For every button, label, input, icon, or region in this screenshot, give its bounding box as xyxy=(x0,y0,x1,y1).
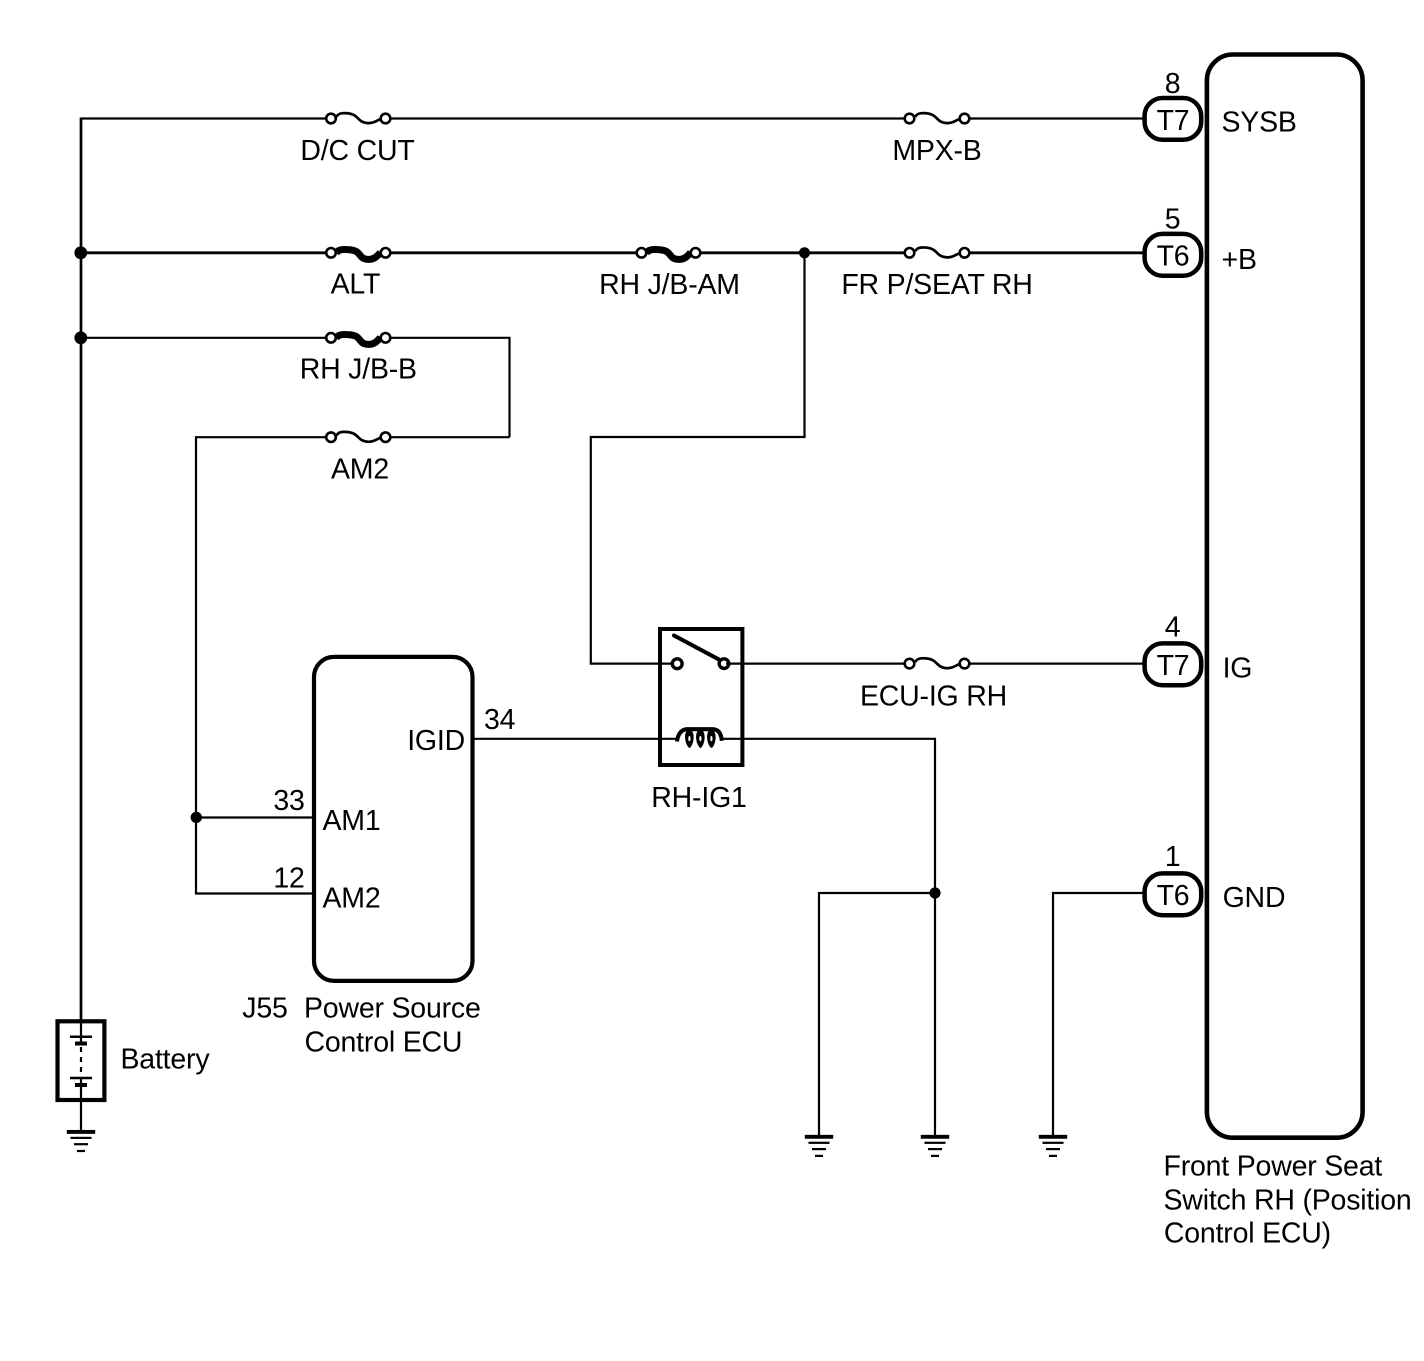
connector terminal T6 pin 5 +B xyxy=(1145,204,1257,277)
junction node on left bus at +B wire xyxy=(74,246,87,259)
relay coil xyxy=(677,729,722,741)
wire: AM2 run down to ECU pins xyxy=(196,437,510,817)
fuse ECU-IG RH xyxy=(860,655,1007,712)
svg-text:T6: T6 xyxy=(1157,880,1190,912)
wire: battery to ground xyxy=(80,1100,82,1131)
fuse D/C CUT xyxy=(300,110,414,167)
wire: relay coil to ground xyxy=(722,739,936,1136)
svg-text:J55: J55 xyxy=(242,993,287,1025)
svg-text:FR P/SEAT RH: FR P/SEAT RH xyxy=(841,269,1032,301)
connector terminal T7 pin 4 IG xyxy=(1145,611,1253,685)
svg-text:MPX-B: MPX-B xyxy=(892,135,981,167)
svg-text:T7: T7 xyxy=(1157,105,1190,137)
wire: AM1 pin wire xyxy=(196,816,316,818)
fusible link RH J/B-AM xyxy=(599,244,740,301)
svg-text:5: 5 xyxy=(1165,204,1181,236)
svg-text:Battery: Battery xyxy=(121,1044,211,1076)
svg-text:+B: +B xyxy=(1222,244,1257,276)
wire: +B run from left bus to T6 xyxy=(81,251,1146,254)
svg-text:ALT: ALT xyxy=(331,269,381,301)
J55 Power Source Control ECU box xyxy=(314,657,473,981)
junction node at AM1 pin wire xyxy=(191,812,202,823)
svg-text:AM1: AM1 xyxy=(323,805,381,837)
svg-text:RH J/B-AM: RH J/B-AM xyxy=(599,269,740,301)
ground (battery) xyxy=(67,1130,95,1152)
battery xyxy=(58,1021,211,1100)
ground (left branch) xyxy=(805,1135,833,1157)
svg-text:12: 12 xyxy=(273,863,304,895)
wire: left vertical bus from SYSB wire down to battery xyxy=(80,118,83,1023)
svg-text:T6: T6 xyxy=(1157,241,1190,273)
wire: ground branch xyxy=(819,893,935,1136)
svg-text:IG: IG xyxy=(1223,653,1253,685)
wire: IGID pin wire to relay coil xyxy=(474,738,678,740)
svg-text:SYSB: SYSB xyxy=(1222,107,1297,139)
svg-text:ECU-IG RH: ECU-IG RH xyxy=(860,680,1007,712)
svg-text:RH J/B-B: RH J/B-B xyxy=(300,354,417,386)
junction node on coil ground wire xyxy=(929,887,940,898)
relay switch contact right xyxy=(719,659,729,669)
fuse MPX-B xyxy=(892,110,981,167)
wire: AM2 pin wire xyxy=(196,818,316,894)
svg-text:Switch RH (Position: Switch RH (Position xyxy=(1164,1184,1412,1216)
wire: relay feed from +B junction to relay switch xyxy=(591,253,805,664)
svg-text:IGID: IGID xyxy=(407,725,465,757)
svg-text:GND: GND xyxy=(1223,882,1286,914)
junction node on left bus at RH J/B-B wire xyxy=(74,331,87,344)
relay switch arm xyxy=(674,636,719,660)
svg-text:33: 33 xyxy=(273,785,304,817)
caption Front Power Seat Switch RH (Position Control ECU) xyxy=(1164,1151,1412,1250)
ground (coil) xyxy=(921,1135,949,1157)
fusible link ALT xyxy=(326,244,390,300)
svg-text:1: 1 xyxy=(1165,841,1181,873)
connector terminal T6 pin 1 GND xyxy=(1145,841,1286,915)
fuse FR P/SEAT RH xyxy=(841,244,1032,301)
svg-text:8: 8 xyxy=(1165,68,1181,100)
svg-text:AM2: AM2 xyxy=(331,454,389,486)
svg-text:Power Source: Power Source xyxy=(304,993,481,1025)
ground (GND pin) xyxy=(1039,1135,1067,1157)
svg-text:AM2: AM2 xyxy=(323,883,381,915)
wire: top SYSB run from left bus to T7 xyxy=(81,117,1146,119)
wire: IG run from relay switch to T7 xyxy=(726,662,1146,664)
wire: GND pin wire to ground xyxy=(1053,893,1146,1136)
svg-text:Control ECU: Control ECU xyxy=(305,1026,463,1058)
relay RH-IG1 xyxy=(651,629,746,814)
wire: RH J/B-B run from left bus xyxy=(81,338,510,437)
svg-text:34: 34 xyxy=(484,704,516,736)
fusible link RH J/B-B xyxy=(300,329,417,385)
junction node at +B / relay feed xyxy=(799,247,810,258)
fuse AM2 xyxy=(326,429,390,486)
Front Power Seat Switch RH box xyxy=(1207,55,1363,1138)
svg-text:T7: T7 xyxy=(1157,650,1190,682)
relay switch contact left xyxy=(672,659,682,669)
svg-text:RH-IG1: RH-IG1 xyxy=(651,782,746,814)
svg-text:Control ECU): Control ECU) xyxy=(1164,1218,1331,1250)
svg-text:D/C CUT: D/C CUT xyxy=(300,135,414,167)
svg-text:4: 4 xyxy=(1165,611,1181,643)
svg-text:Front Power Seat: Front Power Seat xyxy=(1164,1151,1383,1183)
connector terminal T7 pin 8 SYSB xyxy=(1145,68,1297,140)
